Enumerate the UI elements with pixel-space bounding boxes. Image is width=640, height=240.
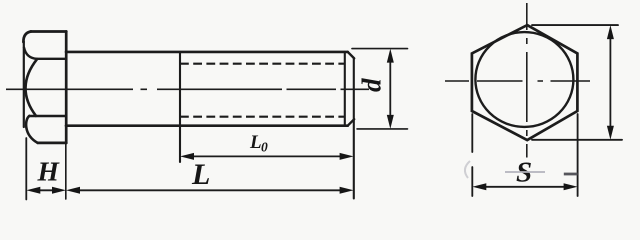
head middle facet arc [25, 59, 37, 116]
watermark remnant dash [564, 173, 578, 176]
svg-text:L: L [191, 158, 210, 191]
dimension S line [478, 186, 572, 188]
bolt head right face [65, 32, 68, 144]
arrowhead S left [472, 183, 486, 190]
svg-text:d: d [357, 78, 387, 92]
arrowhead across-corners top [607, 25, 614, 39]
dimension H line [32, 189, 60, 191]
H left extension line [25, 138, 27, 200]
hexagon head end view [472, 25, 578, 140]
chamfer circle [475, 32, 573, 127]
arrowhead across-corners bottom [607, 126, 614, 140]
thread minor diameter dashed bottom [180, 116, 345, 118]
across-corners top extension line [532, 24, 618, 26]
head top facet chamfer arc [24, 48, 37, 59]
tip chamfer start line [344, 52, 346, 126]
svg-text:H: H [37, 155, 61, 186]
thread start line [179, 52, 181, 162]
hex vertical centerline [526, 3, 528, 158]
watermark remnant curve [465, 161, 470, 178]
head right face extension line [65, 143, 67, 199]
thread minor diameter dashed top [180, 63, 345, 65]
arrowhead S right [564, 183, 578, 190]
tip chamfer bottom diagonal [348, 119, 355, 126]
head facet boundary top [37, 58, 66, 60]
centerline bolt axis [6, 88, 369, 90]
bolt head top line [31, 30, 67, 33]
shank top edge [66, 51, 348, 54]
arrowhead L0 left [180, 153, 194, 160]
arrowhead d top [387, 49, 394, 63]
svg-text:0: 0 [261, 140, 268, 155]
dimension d line [389, 54, 391, 124]
hex horizontal centerline [445, 80, 590, 82]
arrowhead L right [340, 187, 354, 194]
arrowhead d bottom [387, 115, 394, 129]
across-corners bottom extension line [532, 139, 622, 141]
svg-text:L: L [249, 132, 262, 153]
arrowhead H left [26, 187, 40, 194]
head facet boundary bottom [29, 115, 66, 117]
dimension L0 line [186, 155, 348, 157]
tip chamfer top diagonal [348, 52, 355, 59]
head bottom facet chamfer arc [26, 116, 38, 143]
arrowhead H right [52, 187, 66, 194]
head left face line [23, 42, 25, 128]
arrowhead L left [66, 187, 80, 194]
S left extension line [471, 114, 473, 196]
bolt head bottom line [38, 142, 67, 145]
arrowhead L0 right [340, 153, 354, 160]
d bottom extension line [357, 128, 408, 130]
shank bottom edge [66, 124, 348, 127]
S right extension line [577, 114, 579, 196]
head top-left corner arc [23, 32, 31, 43]
tip face / L L0 right extension line [353, 58, 355, 198]
watermark remnant strike [505, 171, 545, 173]
across-corners dimension line [609, 30, 611, 135]
dimension L line [72, 189, 348, 191]
d top extension line [352, 48, 408, 50]
